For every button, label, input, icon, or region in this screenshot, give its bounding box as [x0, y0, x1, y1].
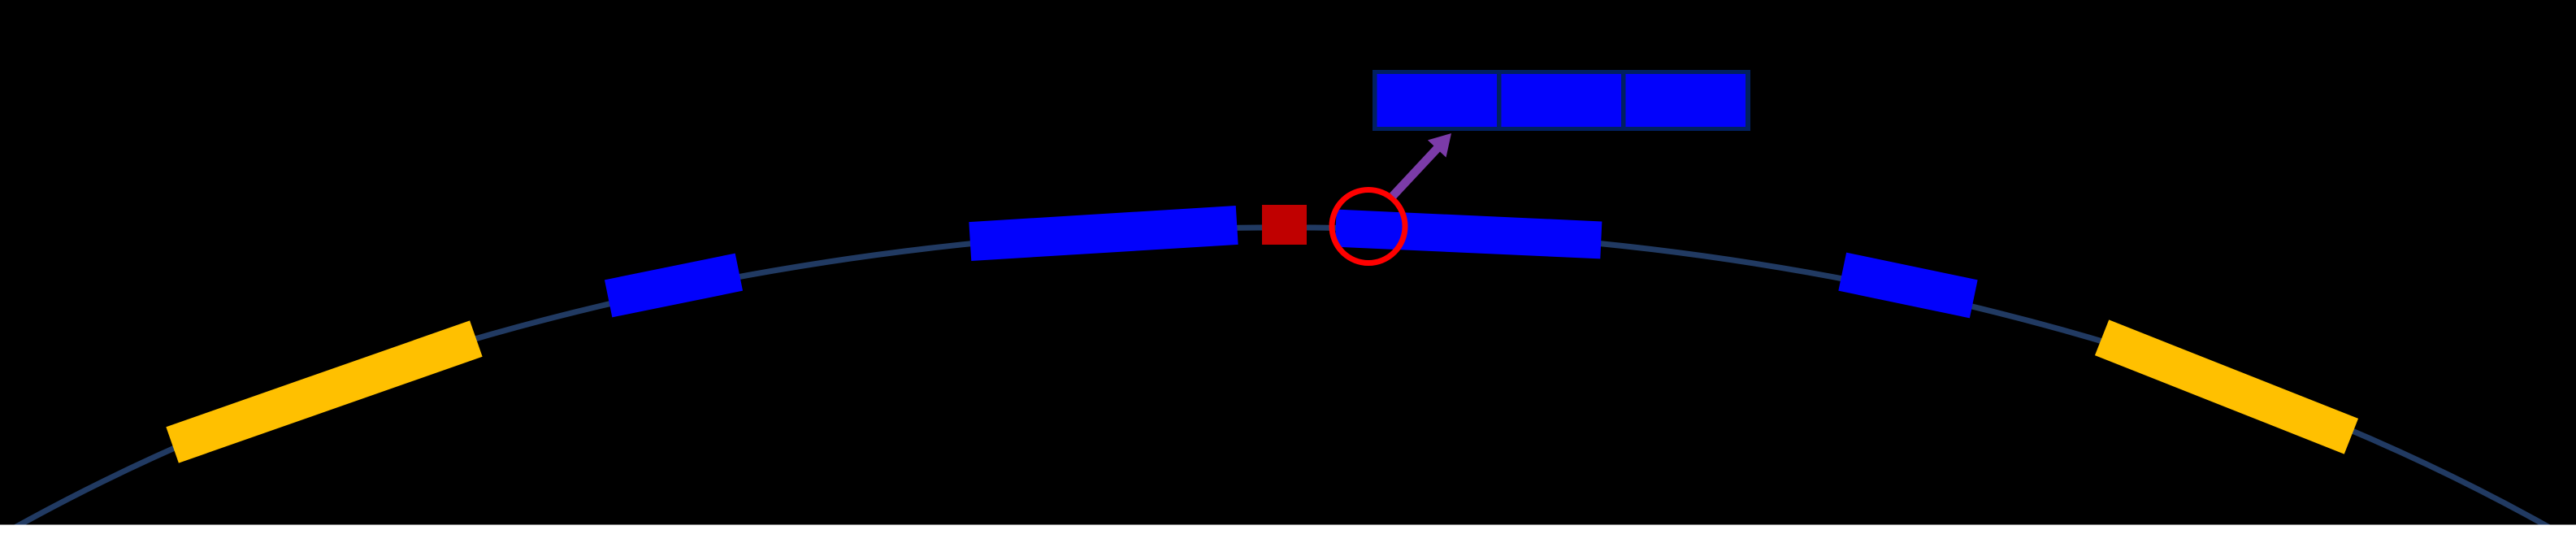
beamline arc [2, 228, 2565, 536]
purple arrow [1390, 133, 1451, 199]
white bottom strip [0, 525, 2576, 543]
magnet detail box border [1373, 70, 1750, 131]
blue long magnet left [969, 206, 1238, 261]
blue small magnet left [605, 254, 743, 318]
blue small magnet right [1838, 253, 1977, 319]
detail box cell 1 [1377, 74, 1498, 127]
blue long magnet right [1335, 210, 1602, 259]
red square collimator [1262, 205, 1307, 245]
detail box cell 2 [1502, 74, 1622, 127]
red highlight circle [1332, 190, 1405, 263]
yellow magnet left [166, 320, 482, 463]
yellow magnet right [2095, 319, 2358, 454]
detail box cell 3 [1626, 74, 1746, 127]
